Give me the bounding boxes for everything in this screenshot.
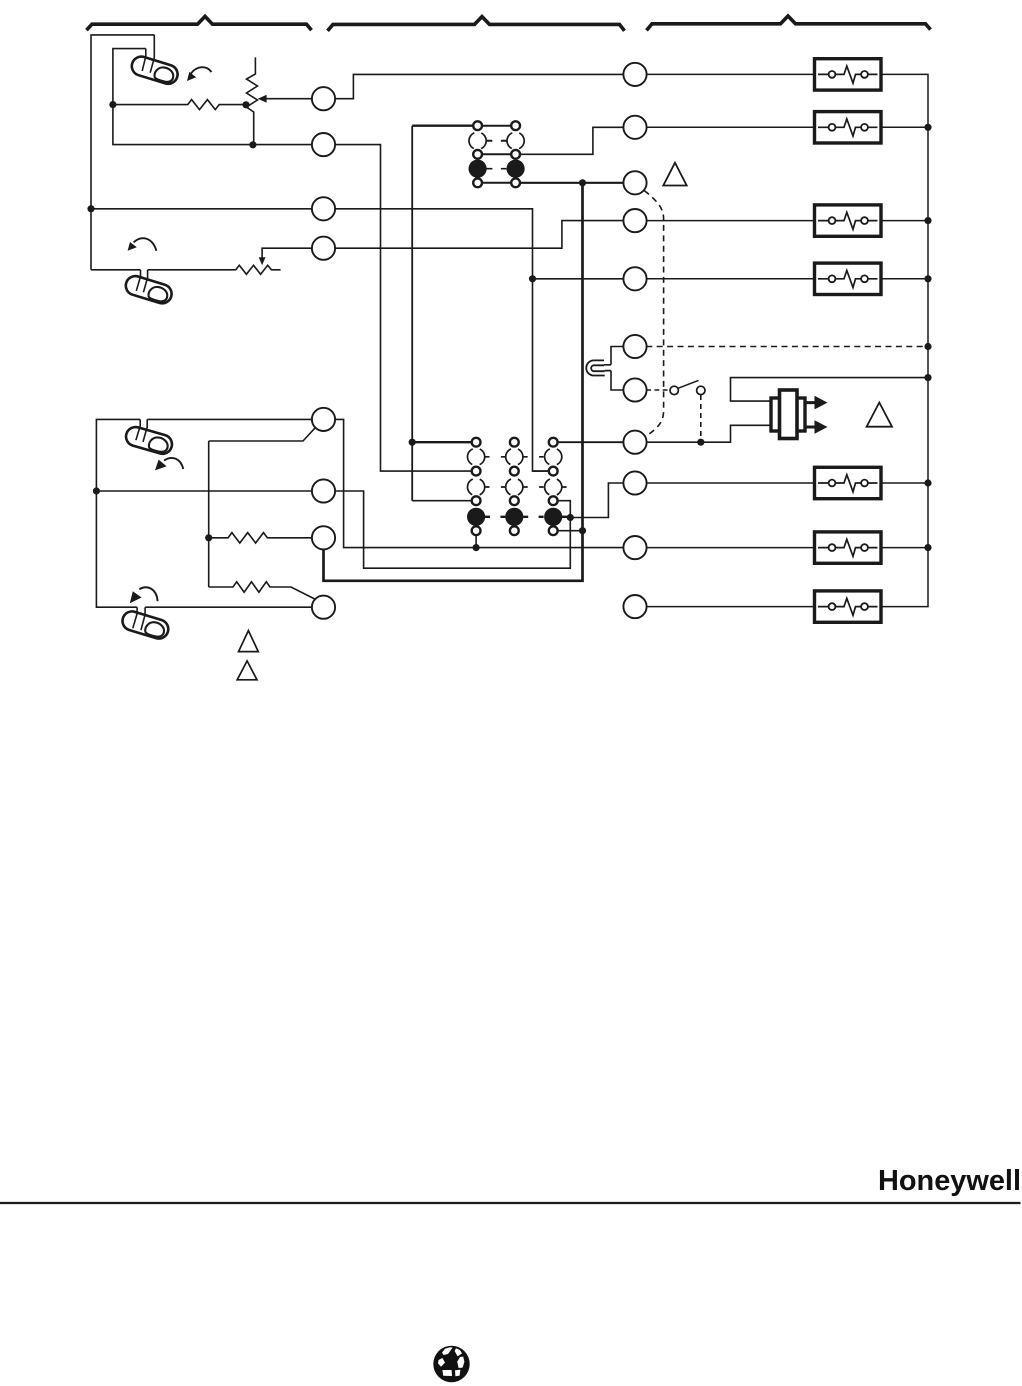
terminal R8 (623, 431, 646, 454)
arrow: rotation arc for SW4 (130, 587, 158, 603)
terminal L7 (312, 526, 335, 549)
heater load E5 (815, 467, 882, 498)
wire: riser from upper contact c1 top down to lower contact c1 (411, 126, 413, 501)
relay contact stack K1 column 2 (504, 121, 527, 187)
wire: riser bottom to lower contact c1 row5 (412, 500, 472, 502)
junction: thick riser at upper contact bottom wire (579, 179, 586, 186)
relay contact stack K2 column 3 (542, 438, 565, 535)
junction: riser at lower c1 top wire (409, 439, 416, 446)
junction: contact c1 bottom stub on L5-R10 wire (473, 544, 480, 551)
terminal R2 (623, 116, 646, 139)
wire: fan bus vertical (208, 441, 210, 587)
recycle symbol (433, 1346, 469, 1382)
wire: terminal L3 over and down to contact c3 row3 (335, 209, 549, 471)
warning triangle note 2 (at valve) (867, 403, 892, 427)
junction: switch S1 on R8-valve wire (697, 439, 704, 446)
brace: left section divider (87, 16, 312, 30)
resistor: heat anticipator R1a (113, 100, 248, 110)
potentiometer P1 (vertical, heat) (247, 57, 258, 144)
arrow: rotation arc for SW3 (155, 458, 183, 470)
wire: load to bus (881, 547, 928, 549)
wire: c1 bottom stub (475, 535, 477, 548)
wire: terminal L7 stub down and thick riser to upper contact bottom row (324, 183, 583, 581)
junction: c3 row5 riser to R9 link (567, 514, 574, 521)
terminal L5 (312, 408, 335, 431)
warning triangle note 3 (239, 631, 259, 652)
mercury switch SW3 (fan, lower left upper) (124, 419, 174, 456)
dashed wire: R3 to changeover switch branch (644, 191, 663, 437)
warning triangle note 1 (at terminal R3) (663, 163, 686, 186)
wire: terminal L4 wiper down to potentiometer P2 (259, 248, 313, 265)
relay contact stack K2 column 2 (503, 438, 526, 535)
wire: lower-left rail (top run with SW3 gap, vertical, bottom run with SW4 gap) (96, 419, 140, 607)
junction: SW1 electrode to R1a wire (109, 101, 116, 108)
wire: upper contacts top row link (482, 125, 511, 127)
wire: terminal row to load E4 (646, 278, 814, 280)
switch S1 (dashed pilot) (646, 380, 705, 442)
wire: upper contact c1 top feed (412, 125, 473, 127)
junction: bus tap (924, 275, 931, 282)
wire: left rail to terminal L3 (91, 208, 312, 210)
dashed wire: R6 to right bus (646, 346, 928, 348)
wire: inner loop from SW1 electrode 1 down to terminal L2 row (113, 49, 312, 145)
mercury switch SW2 (cooling, mid left) (123, 270, 174, 306)
wire: R8 to valve lower terminal (646, 425, 771, 442)
junction: valve upper wire at bus (924, 374, 931, 381)
brace: middle section divider (328, 17, 625, 31)
wire: lamp to terminal R6 (611, 347, 624, 365)
wire: terminal L6 over, down and up to contact c3 row5 (335, 491, 571, 568)
wire: c3 bottom small to thick riser (558, 530, 583, 532)
terminal L2 (312, 133, 335, 156)
wire: terminal row to load E6 (646, 547, 814, 549)
terminal R3 (623, 171, 646, 194)
footer rule (0, 1202, 1021, 1204)
terminal R4 (623, 209, 646, 232)
terminal R11 (623, 595, 646, 618)
wire: terminal L1 up over to terminal R1 (335, 74, 624, 98)
wire: right bus (881, 74, 928, 606)
junction: R6 dashed wire at bus (924, 343, 931, 350)
wire: upper contacts row3 link and run to terminal R2 (482, 153, 511, 155)
heater load E1 (815, 59, 882, 90)
wire: P1 wiper from terminal L1 (258, 95, 312, 103)
contact dash marks K1 solid row (486, 168, 507, 170)
arrow: rotation arc for SW2 (128, 238, 157, 251)
junction: L3 drop to R5 wire (529, 275, 536, 282)
wire: terminal row to load E5 (646, 482, 814, 484)
terminal L6 (312, 479, 335, 502)
heater load E7 (815, 591, 882, 622)
terminal R5 (623, 267, 646, 290)
heater load E6 (815, 532, 882, 563)
junction: fan bus at R3b (205, 534, 212, 541)
terminal L8 (312, 596, 335, 619)
contact dash marks K1 dashed row (486, 140, 507, 142)
heater load E2 (815, 112, 882, 143)
junction: R1a to potentiometer P1 (242, 101, 249, 108)
heater load E3 (815, 205, 882, 236)
mercury switch SW4 (system, lower left bottom) (120, 607, 171, 641)
wire: rail to terminal L6 (96, 490, 312, 492)
resistor R3b to terminal L7 (209, 533, 313, 543)
terminal L3 (312, 197, 335, 220)
wire: junction link to terminal R9 (570, 483, 623, 518)
wire: terminal row to load E1 (646, 73, 814, 75)
wire: terminal row to load E3 (646, 220, 814, 222)
wire: load to bus (881, 482, 928, 484)
junction: P1 bottom to L2 wire (249, 141, 256, 148)
junction: bus tap (924, 544, 931, 551)
terminal R10 (623, 536, 646, 559)
brace: right section divider (647, 16, 931, 30)
wire: terminal L2 down to relay contact row (lower group c1 row3) (335, 145, 472, 472)
wire: c3 top to terminal R8 (558, 441, 624, 443)
junction: bus tap (924, 124, 931, 131)
wire: upper contacts bottom row link and run to terminal R3 (482, 182, 511, 184)
contact dash marks K2 dashed row 1 (485, 456, 544, 458)
wire: load to bus (881, 220, 928, 222)
wire: terminal row to load E7 (646, 606, 814, 608)
wire: terminal row to load E2 (646, 126, 814, 128)
svg-text:Honeywell: Honeywell (878, 1165, 1021, 1197)
terminal R6 (623, 335, 646, 358)
junction: left rail at L3 wire (87, 205, 94, 212)
valve actuator M1 (771, 390, 828, 439)
junction: bus tap (924, 217, 931, 224)
wire: valve upper terminal to right bus (731, 378, 929, 402)
terminal R9 (623, 471, 646, 494)
heater load E4 (815, 263, 882, 294)
wire: load to bus (881, 126, 928, 128)
mercury switch SW1 (heating, top left) (129, 35, 180, 86)
resistor R4b with diagonal to terminal L8 (209, 582, 316, 600)
potentiometer P2 (horizontal, cool anticipator) (148, 265, 281, 274)
relay contact stack K1 column 1 (466, 121, 489, 187)
junction: lower-left rail to L6 wire (93, 487, 100, 494)
wire: left rail corner to SW2 electrode 1 (91, 269, 141, 271)
contact dash marks K2 dashed row 2 (485, 486, 567, 488)
arrow: rotation arc for SW1 (187, 67, 212, 81)
wire: terminal L5 diagonal tap down to fan bus (209, 427, 316, 441)
terminal L1 (312, 87, 335, 110)
wire: terminal R5 to L3 drop (533, 278, 624, 280)
wire: riser to lower contact c1 top (412, 441, 472, 443)
relay contact stack K2 column 1 (465, 438, 488, 535)
wire: top-left outer loop (electrode 2 riser of SW1 down left rail) (91, 35, 154, 270)
junction: bus tap (924, 479, 931, 486)
junction: thick riser at c3 bottom wire (579, 527, 586, 534)
wire: c3 row3 feed from L3 drop (533, 470, 549, 472)
terminal R7 (623, 378, 646, 401)
terminal L4 (312, 237, 335, 260)
contact dash marks K2 solid row (485, 516, 544, 518)
wire: terminal L5 over and down to terminal R10 row (335, 419, 624, 547)
wire: terminal L4 over to terminal R4 riser (335, 221, 624, 249)
wire: c3 solid contact stub to junction (562, 516, 570, 518)
wire: lamp to terminal R7 (611, 371, 624, 390)
terminal R1 (623, 63, 646, 86)
indicator lamp DS1 (586, 360, 611, 375)
wire: load to bus (881, 278, 928, 280)
warning triangle note 4 (237, 661, 257, 680)
